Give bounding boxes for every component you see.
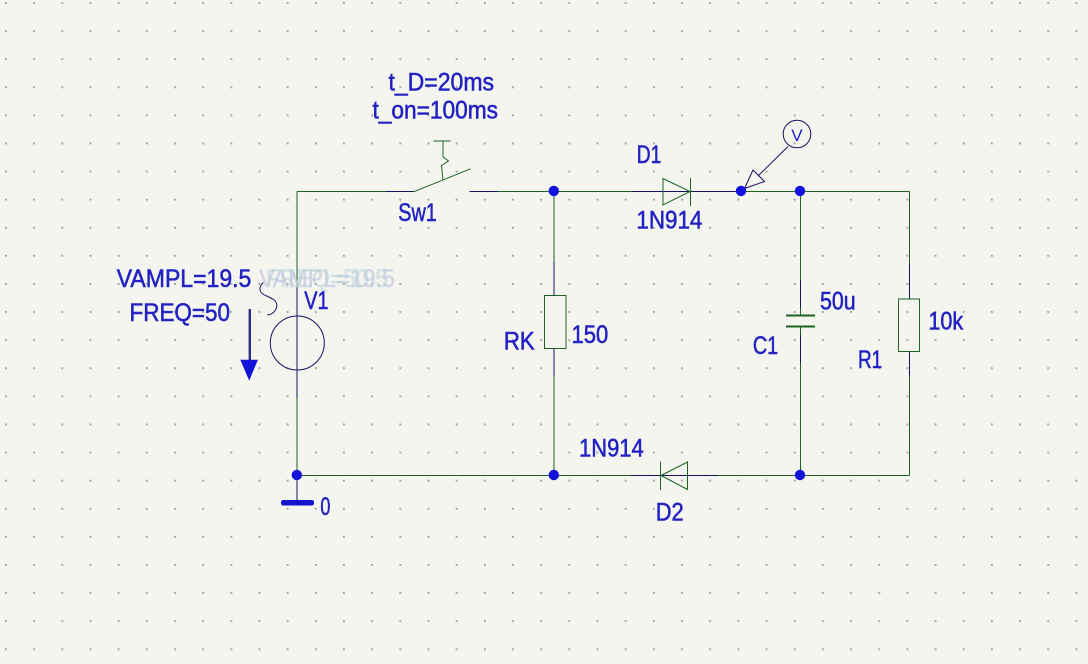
ground stub wire: [296, 476, 298, 501]
node: C1 bottom / D2 anode: [795, 470, 805, 480]
capacitor C1 bottom plate: [786, 326, 815, 328]
svg-text:FREQ=50: FREQ=50: [130, 299, 231, 327]
switch Sw1 control bar: [434, 140, 451, 142]
svg-text:RK: RK: [504, 327, 535, 355]
wire top-left horizontal from V1 column to switch: [297, 191, 386, 193]
svg-text:1N914: 1N914: [636, 207, 702, 235]
node: C1 top: [795, 186, 805, 196]
resistor R1 top pin stub (navy): [909, 264, 911, 299]
switch Sw1 arm: [414, 169, 471, 192]
source V1 circle: [270, 316, 324, 370]
capacitor C1 column: node to cap (green wire): [800, 192, 802, 281]
wire bottom middle horizontal: [297, 475, 631, 477]
node: switch/RK/D1 top: [549, 186, 559, 196]
resistor RK bottom pin stub (navy): [553, 349, 555, 377]
voltage probe shaft: [759, 147, 789, 176]
svg-text:150: 150: [572, 321, 609, 349]
junction node dots: [292, 186, 806, 481]
wire RK to bottom node (green): [553, 376, 555, 476]
voltage probe circle: [783, 120, 811, 148]
voltage probe arrowhead: [745, 170, 765, 189]
capacitor C1 bottom pin stub (navy): [800, 335, 802, 363]
svg-text:t_on=100ms: t_on=100ms: [373, 96, 499, 124]
diode D1 cathode bar: [690, 178, 692, 206]
wire left column upper (green): [296, 192, 298, 289]
svg-text:D1: D1: [637, 141, 662, 169]
resistor R1 body: [899, 299, 920, 352]
resistor RK top pin stub (navy): [553, 262, 555, 296]
wire switch to D1 (through node at RK top): [498, 191, 632, 193]
svg-text:C1: C1: [753, 332, 778, 360]
V1 polarity arrow (blue): [240, 309, 258, 381]
ground symbol bar: [281, 500, 314, 506]
diode D1 lead line (navy): [632, 191, 737, 193]
svg-text:Sw1: Sw1: [398, 199, 437, 227]
svg-text:t_D=20ms: t_D=20ms: [389, 69, 495, 97]
diode D1 triangle: [663, 179, 690, 206]
svg-text:V: V: [791, 126, 803, 145]
resistor RK column: node to box (green wire): [553, 192, 555, 263]
svg-text:50u: 50u: [820, 287, 856, 315]
diode D2 cathode bar: [660, 462, 662, 491]
wire switch right pin stub (navy): [470, 191, 498, 193]
wire right column upper (green): [909, 192, 911, 265]
capacitor C1 top plate: [786, 315, 815, 317]
svg-text:D2: D2: [656, 498, 684, 526]
wire bottom-right horizontal: [718, 475, 910, 477]
wire right column lower (green): [909, 377, 911, 476]
svg-text:R1: R1: [858, 346, 882, 374]
wire D1 to top-right corner: [737, 191, 910, 193]
diode D2 lead line (navy): [631, 475, 718, 477]
resistor RK body: [544, 296, 566, 349]
switch Sw1 control stem and break chevron: [442, 141, 449, 180]
source V1 pin leads (navy, through circle): [296, 288, 298, 398]
V1 attribute pointer squiggle: [260, 283, 277, 315]
node: ground / V1 minus: [292, 470, 302, 480]
capacitor C1 bottom stub (green): [800, 327, 802, 336]
svg-text:10k: 10k: [928, 307, 963, 335]
wire switch left pin stub (navy): [386, 191, 414, 193]
wire C1 to bottom node (green): [800, 363, 802, 476]
node: RK bottom: [549, 470, 559, 480]
capacitor C1 top stub (green): [800, 308, 802, 316]
resistor R1 bottom pin stub (navy): [909, 352, 911, 378]
diode D2 triangle: [661, 462, 688, 490]
svg-text:1N914: 1N914: [579, 434, 644, 462]
wire left column lower (green): [296, 398, 298, 476]
capacitor C1 top pin stub (navy): [800, 280, 802, 308]
svg-text:VAMPL=19.5: VAMPL=19.5: [117, 265, 252, 293]
node: D1 cathode / probe point: [736, 186, 746, 196]
svg-text:V1: V1: [304, 287, 328, 315]
svg-text:0: 0: [320, 493, 330, 521]
